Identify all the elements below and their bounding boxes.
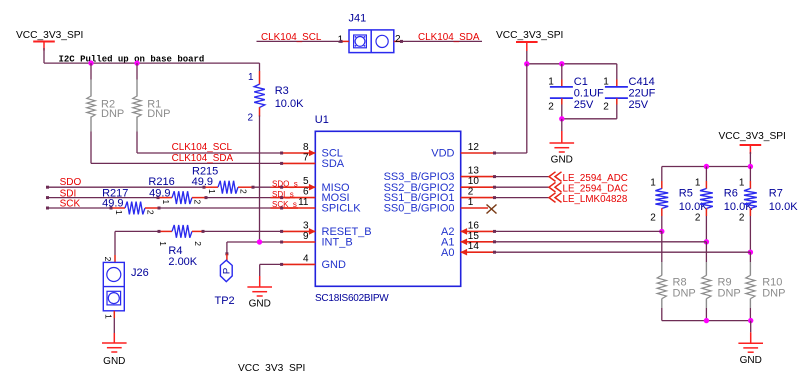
U1 pin 11 stub bbox=[282, 207, 316, 209]
J41 pin 2 bbox=[394, 40, 402, 42]
U1 pin 2 stub bbox=[461, 197, 495, 199]
junction VDD riser bbox=[524, 61, 529, 66]
ground GND (right) bbox=[738, 342, 763, 344]
svg-text:LE_LMK04828: LE_LMK04828 bbox=[563, 194, 628, 205]
wire R7 to R10 bbox=[749, 252, 751, 262]
svg-text:U1: U1 bbox=[315, 114, 329, 126]
svg-text:49.9: 49.9 bbox=[149, 187, 170, 199]
wire rail to GND bbox=[750, 321, 752, 333]
net CLK104_SCL wire to U1 SCL bbox=[137, 152, 282, 154]
wire INT_B net bbox=[227, 241, 282, 243]
resistor R4 2.00K bbox=[115, 230, 159, 232]
svg-text:2: 2 bbox=[695, 213, 701, 224]
svg-text:VDD: VDD bbox=[431, 148, 454, 160]
svg-text:49.9: 49.9 bbox=[192, 176, 213, 188]
svg-text:GND: GND bbox=[103, 356, 125, 367]
svg-text:CLK104_SCL: CLK104_SCL bbox=[172, 142, 233, 153]
svg-text:1: 1 bbox=[695, 177, 701, 188]
off-page connector LE_2594_ADC bbox=[549, 172, 556, 182]
net label SDO_s bbox=[271, 186, 299, 188]
svg-text:1: 1 bbox=[603, 77, 609, 88]
svg-text:9: 9 bbox=[303, 231, 309, 242]
svg-text:SC18IS602BIPW: SC18IS602BIPW bbox=[315, 293, 389, 304]
svg-text:8: 8 bbox=[303, 142, 309, 153]
svg-text:1: 1 bbox=[103, 314, 113, 319]
wire VDD to VCC rail bbox=[495, 152, 527, 154]
resistor R10 DNP bbox=[749, 262, 751, 276]
wire SS1_B to LE_LMK04828 bbox=[495, 197, 550, 199]
net label SDI_s bbox=[271, 197, 296, 199]
ground GND (J26) bbox=[102, 342, 127, 344]
junction rail-R2 bbox=[88, 60, 93, 65]
U1 pin 13 stub bbox=[461, 176, 495, 178]
svg-text:11: 11 bbox=[298, 197, 309, 208]
svg-text:SDO: SDO bbox=[60, 177, 82, 188]
capacitor C414 22UF 25V bbox=[616, 64, 618, 80]
svg-text:1: 1 bbox=[207, 189, 217, 194]
junction rail-R6 bbox=[704, 164, 709, 169]
svg-text:LE_2594_ADC: LE_2594_ADC bbox=[563, 173, 628, 184]
svg-text:A0: A0 bbox=[441, 247, 454, 259]
svg-text:GND: GND bbox=[551, 155, 573, 166]
wire bottom ground rail bbox=[662, 320, 751, 322]
svg-text:CLK104_SDA: CLK104_SDA bbox=[418, 32, 480, 43]
junction R9 bottom bbox=[704, 318, 709, 323]
J41 pin 1 bbox=[341, 40, 349, 42]
svg-text:7: 7 bbox=[303, 152, 309, 163]
test point TP2 bbox=[226, 242, 228, 254]
svg-text:J41: J41 bbox=[349, 13, 367, 25]
svg-text:J26: J26 bbox=[131, 267, 149, 279]
junction rail-R1 bbox=[134, 60, 139, 65]
svg-text:25V: 25V bbox=[574, 99, 594, 111]
junction R7 to A-net bbox=[748, 250, 753, 255]
junction C1 top bbox=[559, 61, 564, 66]
svg-text:2: 2 bbox=[650, 213, 656, 224]
wire cap rail top bbox=[527, 63, 617, 65]
svg-text:2: 2 bbox=[739, 213, 745, 224]
svg-text:R5: R5 bbox=[679, 188, 693, 200]
connector J26 bbox=[114, 253, 116, 255]
svg-text:49.9: 49.9 bbox=[102, 198, 123, 210]
svg-text:2: 2 bbox=[192, 199, 202, 204]
svg-text:2: 2 bbox=[193, 241, 203, 246]
svg-text:2.00K: 2.00K bbox=[168, 256, 197, 268]
resistor R7 10.0K bbox=[749, 167, 751, 182]
wire A2 from U1 to R5 bbox=[495, 230, 662, 232]
svg-text:CLK104_SCL: CLK104_SCL bbox=[261, 32, 322, 43]
wire R5 to R8 bbox=[661, 231, 663, 262]
svg-text:12: 12 bbox=[468, 142, 480, 153]
svg-text:3: 3 bbox=[303, 220, 309, 231]
svg-text:1: 1 bbox=[161, 199, 171, 204]
svg-text:1: 1 bbox=[650, 177, 656, 188]
junction R6 to A-net bbox=[704, 239, 709, 244]
U1 pin 4 stub bbox=[282, 263, 316, 265]
wire A1 from U1 to R6 bbox=[495, 241, 707, 243]
svg-text:5: 5 bbox=[303, 176, 309, 187]
U1 pin 6 stub bbox=[282, 197, 316, 199]
svg-text:25V: 25V bbox=[629, 99, 649, 111]
U1 pin 10 stub bbox=[461, 186, 495, 188]
IC U1 SC18IS602BIPW body bbox=[315, 131, 460, 286]
svg-text:1: 1 bbox=[114, 210, 124, 215]
svg-text:CLK104_SDA: CLK104_SDA bbox=[172, 153, 234, 164]
svg-text:15: 15 bbox=[468, 231, 480, 242]
U1 pin 12 stub bbox=[461, 152, 495, 154]
svg-text:VCC_3V3_SPI: VCC_3V3_SPI bbox=[238, 363, 305, 371]
svg-text:2: 2 bbox=[145, 210, 155, 215]
resistor R2 DNP bbox=[90, 63, 92, 79]
svg-text:VCC_3V3_SPI: VCC_3V3_SPI bbox=[16, 30, 83, 41]
junction R3-INT_B-TP2 bbox=[257, 239, 262, 244]
svg-text:10.0K: 10.0K bbox=[275, 98, 304, 110]
svg-text:DNP: DNP bbox=[718, 287, 741, 299]
resistor R5 10.0K bbox=[661, 167, 663, 182]
wire VCC to I2C rail bbox=[43, 48, 45, 63]
svg-text:INT_B: INT_B bbox=[322, 237, 353, 249]
svg-text:6: 6 bbox=[303, 187, 309, 198]
svg-text:2: 2 bbox=[548, 102, 554, 113]
U1 pin 1 stub bbox=[461, 207, 488, 209]
wire R3 to INT_B net bbox=[259, 116, 261, 243]
net CLK104_SDA wire to U1 SDA bbox=[91, 162, 282, 164]
svg-text:1: 1 bbox=[548, 77, 554, 88]
svg-text:22UF: 22UF bbox=[629, 88, 656, 100]
wire to GND below C1 bbox=[561, 119, 563, 131]
wire I2C pull-up rail bbox=[44, 62, 260, 64]
no-connect X on SS0_B/GPIO0 bbox=[487, 205, 497, 214]
U1 pin 5 stub bbox=[282, 186, 316, 188]
svg-text:2: 2 bbox=[603, 102, 609, 113]
svg-text:C1: C1 bbox=[574, 76, 588, 88]
svg-text:2: 2 bbox=[238, 189, 248, 194]
net label SCK_s bbox=[271, 207, 299, 209]
svg-text:DNP: DNP bbox=[147, 108, 170, 120]
resistor R3 10.0K pull-up bbox=[259, 63, 261, 71]
U1 pin 14 stub bbox=[461, 251, 495, 253]
junction R5 to A-net bbox=[659, 229, 664, 234]
junction R10 bottom bbox=[748, 318, 753, 323]
U1 pin 16 stub bbox=[461, 230, 495, 232]
resistor R8 DNP bbox=[661, 262, 663, 276]
svg-text:SS0_B/GPIO0: SS0_B/GPIO0 bbox=[384, 203, 455, 215]
svg-text:VCC_3V3_SPI: VCC_3V3_SPI bbox=[496, 30, 563, 41]
svg-text:DNP: DNP bbox=[101, 108, 124, 120]
svg-text:GND: GND bbox=[249, 299, 271, 310]
wire R4 to U1 RESET_B bbox=[203, 230, 282, 232]
ground GND (caps) bbox=[550, 142, 575, 144]
resistor R1 DNP bbox=[136, 63, 138, 79]
svg-text:R3: R3 bbox=[275, 85, 289, 97]
svg-text:1: 1 bbox=[739, 177, 745, 188]
U1 pin 7 stub bbox=[282, 162, 316, 164]
off-page connector LE_LMK04828 bbox=[549, 193, 556, 203]
capacitor C1 0.1UF 25V bbox=[561, 64, 563, 80]
svg-text:GND: GND bbox=[740, 355, 762, 366]
svg-text:SDA: SDA bbox=[322, 158, 345, 170]
resistor R9 DNP bbox=[705, 262, 707, 276]
svg-text:1: 1 bbox=[468, 197, 474, 208]
svg-text:13: 13 bbox=[468, 166, 480, 177]
wire pull-up rail bbox=[662, 166, 751, 168]
wire R6 to R9 bbox=[705, 242, 707, 262]
junction C1 bottom bbox=[559, 116, 564, 121]
wire SS3_B to LE_2594_ADC bbox=[495, 176, 550, 178]
svg-text:10.0K: 10.0K bbox=[769, 201, 798, 213]
svg-text:0.1UF: 0.1UF bbox=[574, 88, 604, 100]
svg-text:2: 2 bbox=[395, 34, 401, 45]
svg-text:R7: R7 bbox=[769, 188, 783, 200]
wire R1 to SCL bbox=[136, 132, 138, 154]
resistor R6 10.0K bbox=[705, 167, 707, 182]
svg-text:1: 1 bbox=[248, 72, 254, 83]
svg-text:R6: R6 bbox=[724, 188, 738, 200]
svg-text:10: 10 bbox=[468, 176, 480, 187]
svg-text:VCC_3V3_SPI: VCC_3V3_SPI bbox=[719, 131, 786, 142]
U1 pin 15 stub bbox=[461, 241, 495, 243]
svg-text:DNP: DNP bbox=[762, 287, 785, 299]
svg-text:GND: GND bbox=[322, 259, 347, 271]
wire R4 to J26 bbox=[114, 231, 116, 253]
svg-text:2: 2 bbox=[468, 187, 474, 198]
svg-text:DNP: DNP bbox=[673, 287, 696, 299]
ground GND (U1) bbox=[247, 286, 272, 288]
net CLK104_SCL stub at J41 bbox=[257, 40, 342, 42]
svg-text:SPICLK: SPICLK bbox=[322, 203, 362, 215]
svg-text:14: 14 bbox=[468, 241, 480, 252]
svg-text:1: 1 bbox=[158, 241, 168, 246]
svg-text:2: 2 bbox=[247, 113, 253, 124]
svg-text:C414: C414 bbox=[629, 76, 655, 88]
svg-text:16: 16 bbox=[468, 220, 480, 231]
svg-text:4: 4 bbox=[303, 253, 309, 264]
wire VCC to rail bbox=[526, 51, 528, 64]
svg-text:2: 2 bbox=[103, 257, 113, 262]
wire J26 to GND bbox=[113, 311, 115, 318]
wire U1 GND pin to ground bbox=[260, 263, 282, 265]
wire SS2_B to LE_2594_DAC bbox=[495, 186, 550, 188]
U1 pin 3 stub bbox=[282, 230, 316, 232]
off-page connector LE_2594_DAC bbox=[549, 182, 556, 192]
svg-text:P: P bbox=[221, 268, 232, 274]
wire R2 to SDA bbox=[90, 132, 92, 164]
U1 pin 8 stub bbox=[282, 152, 316, 154]
junction rail-R7 bbox=[748, 164, 753, 169]
wire A0 from U1 to R7 bbox=[495, 251, 751, 253]
U1 pin 9 stub bbox=[282, 241, 316, 243]
svg-text:TP2: TP2 bbox=[215, 295, 235, 307]
wire cap rail bottom bbox=[562, 118, 617, 120]
net CLK104_SDA stub at J41 bbox=[402, 40, 483, 42]
